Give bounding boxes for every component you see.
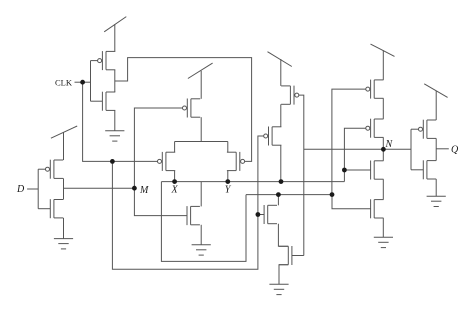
svg-text:N: N xyxy=(385,139,394,150)
svg-text:Q: Q xyxy=(451,145,459,156)
svg-text:Y: Y xyxy=(225,185,232,196)
svg-text:CLK: CLK xyxy=(55,78,73,88)
svg-text:M: M xyxy=(139,185,149,196)
svg-text:D: D xyxy=(16,184,25,195)
svg-text:X: X xyxy=(171,185,179,196)
